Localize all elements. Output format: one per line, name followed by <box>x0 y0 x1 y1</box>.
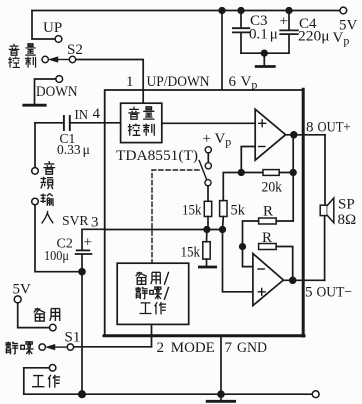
dashed control linkage <box>152 170 199 263</box>
wire volume control to opamp1 <box>162 122 255 124</box>
svg-text:15k: 15k <box>182 203 202 219</box>
node C2 input join <box>79 269 85 275</box>
svg-text:0.1μ: 0.1μ <box>249 27 278 43</box>
svg-text:S2: S2 <box>67 42 83 58</box>
wire 15k to SVR row <box>207 217 209 230</box>
node SVR 15k <box>204 227 210 233</box>
svg-text:UP/DOWN: UP/DOWN <box>147 74 210 90</box>
switch S2 wiper pole <box>42 56 76 62</box>
node A feedback <box>239 170 245 176</box>
svg-text:3: 3 <box>91 215 99 231</box>
wire node B to opamp2 inverting <box>243 247 253 267</box>
svg-text:SVR: SVR <box>62 214 89 229</box>
wire 5k top to node A <box>223 173 263 201</box>
svg-text:15k: 15k <box>181 245 201 261</box>
terminal 5V bottom left <box>14 296 21 303</box>
wire DOWN to ground <box>35 79 56 104</box>
wire pin6 Vp drop <box>221 11 223 90</box>
svg-text:SP: SP <box>338 197 355 213</box>
node rail-C4 <box>286 8 292 14</box>
ground below 15k lower <box>199 259 215 267</box>
op-amp2 <box>253 254 284 306</box>
wire C2 to ground rail <box>81 272 83 395</box>
wire 20k right <box>279 172 293 174</box>
svg-text:UP: UP <box>43 20 62 36</box>
wire switch to 15k <box>207 186 209 202</box>
label volume control box line1 <box>128 107 154 120</box>
node B R junction <box>240 244 246 250</box>
svg-text:6: 6 <box>229 74 237 90</box>
switch S1 wiper pole <box>39 344 74 350</box>
svg-text:+: + <box>280 14 288 30</box>
svg-text:R: R <box>263 204 273 220</box>
svg-text:GND: GND <box>237 340 267 356</box>
wire input ground side <box>35 205 82 272</box>
label standby <box>34 308 60 321</box>
node rail-pin7 <box>218 391 224 397</box>
wire S1 to pin2 MODE <box>74 346 152 348</box>
node opamp2 output <box>290 277 296 283</box>
wire SVR node to opamp2 noninverting <box>223 230 253 292</box>
label audio input vertical <box>40 161 55 223</box>
switch S2 contact UP <box>55 36 62 43</box>
svg-text:MODE: MODE <box>171 340 215 356</box>
wire S2 to pin1 UP/DOWN <box>76 60 143 103</box>
capacitor C3 <box>233 11 249 54</box>
wire UP branch from rail <box>32 11 55 40</box>
svg-text:5: 5 <box>305 285 313 301</box>
capacitor C1 <box>35 116 121 130</box>
wire SVR pin3 <box>82 229 105 249</box>
label block mute line <box>135 287 168 300</box>
wire C3-C4 bottom link <box>241 52 289 54</box>
node rail-C2 branch <box>79 391 85 397</box>
label mute <box>5 342 33 355</box>
svg-text:OUT−: OUT− <box>317 285 353 301</box>
terminal ground rail right <box>312 391 319 398</box>
wire C1 to input terminal <box>34 123 36 168</box>
svg-text:Vp: Vp <box>333 30 350 48</box>
svg-text:1: 1 <box>126 74 134 90</box>
wire 5k bottom <box>222 217 225 230</box>
node rail-pin6 <box>219 8 225 14</box>
svg-text:TDA8551(T): TDA8551(T) <box>116 148 198 164</box>
capacitor C2 <box>76 250 92 271</box>
resistor 15k lower <box>203 242 210 259</box>
wire R lower right <box>276 247 293 281</box>
label volume control left line2 <box>8 57 35 68</box>
mode switch contact top <box>205 163 211 169</box>
svg-text:S1: S1 <box>65 330 81 346</box>
wire R upper left <box>243 221 259 247</box>
wire work contact to ground rail <box>24 368 49 394</box>
svg-text:R: R <box>262 230 272 246</box>
label volume control left line1 <box>9 44 36 56</box>
wire SVR row to 15k lower <box>206 230 208 242</box>
mode switch link <box>207 153 209 163</box>
resistor R upper <box>259 218 277 224</box>
terminal 5V top right <box>340 7 347 14</box>
wire SVR row internal <box>105 229 223 231</box>
mode switch contact bottom <box>205 180 211 186</box>
standby mute work block <box>117 263 189 324</box>
speaker SP <box>320 198 334 223</box>
svg-text:+ Vp: + Vp <box>203 131 232 149</box>
label block standby line <box>136 272 169 285</box>
node C3C4 ground <box>262 50 268 56</box>
terminal audio input top <box>32 168 39 175</box>
svg-text:OUT+: OUT+ <box>318 119 351 135</box>
wire 5V to standby contact <box>18 303 50 328</box>
node opamp1 output <box>291 132 297 138</box>
wire opamp2 output <box>283 279 324 281</box>
wire pin2 MODE stem <box>151 324 153 346</box>
wire top supply rail <box>32 10 340 12</box>
svg-text:8: 8 <box>306 119 314 135</box>
mode switch Vp terminal <box>205 147 211 153</box>
capacitor C4 <box>280 11 298 54</box>
svg-text:4: 4 <box>93 106 101 122</box>
switch S2 contact DOWN <box>56 76 63 83</box>
wire opamp1 output <box>286 134 325 136</box>
svg-text:0.33μ: 0.33μ <box>57 142 90 157</box>
ground bar below DOWN <box>24 104 45 107</box>
op-amp1 <box>255 109 285 160</box>
svg-text:Vp: Vp <box>241 74 258 92</box>
ground below C3 C4 <box>256 53 274 66</box>
svg-text:100μ: 100μ <box>44 248 69 263</box>
label volume control box line2 <box>128 124 155 136</box>
svg-text:5V: 5V <box>13 282 32 298</box>
wire R upper right <box>276 220 293 222</box>
wire node A to opamp1 inverting <box>241 147 255 173</box>
ground symbol pin7 <box>207 394 234 401</box>
svg-text:2: 2 <box>157 340 165 356</box>
node SVR 5k <box>220 227 226 233</box>
IC box TDA8551 <box>104 89 304 336</box>
svg-text:IN: IN <box>75 108 89 123</box>
resistor 5k <box>220 201 227 217</box>
label work <box>32 375 60 388</box>
svg-text:5k: 5k <box>231 203 246 219</box>
wire OUT- to speaker <box>324 216 326 281</box>
node 20k column <box>290 170 296 176</box>
svg-text:8Ω: 8Ω <box>338 212 357 228</box>
svg-text:220μ: 220μ <box>298 29 330 45</box>
volume control block <box>121 103 162 142</box>
svg-text:+: + <box>84 235 92 251</box>
switch S1 contact standby <box>50 324 57 331</box>
switch S1 contact work <box>49 365 56 372</box>
wire bottom ground rail <box>24 393 312 395</box>
node rail-C3 <box>238 8 244 14</box>
resistor 20k <box>263 170 279 176</box>
svg-text:20k: 20k <box>262 180 283 196</box>
svg-text:7: 7 <box>225 340 233 356</box>
wire feedback column <box>292 135 294 221</box>
terminal audio input bottom <box>32 198 39 205</box>
mode switch lever <box>199 161 207 181</box>
label block work line <box>140 302 167 314</box>
resistor R lower <box>259 244 277 250</box>
svg-text:DOWN: DOWN <box>36 84 78 100</box>
resistor 15k upper <box>204 201 211 216</box>
wire OUT+ to speaker <box>324 135 326 205</box>
wire pin7 GND stem <box>220 335 222 394</box>
